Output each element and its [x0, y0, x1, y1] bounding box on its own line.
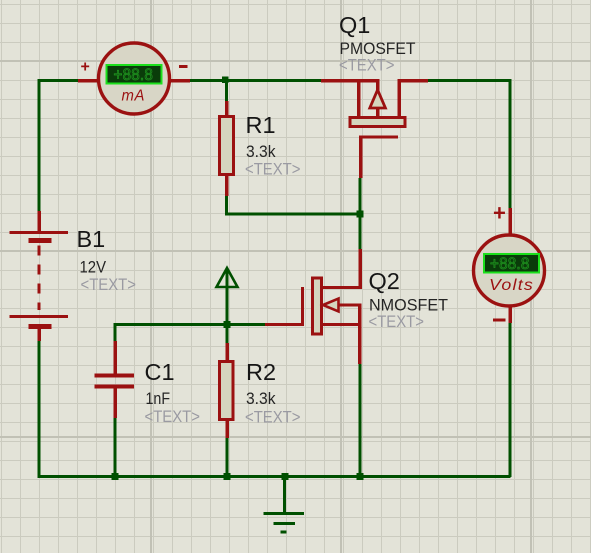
svg-text:R2: R2 — [246, 359, 276, 385]
Q1 pmos red lead right — [398, 79, 429, 83]
wire C1 bottom to rail — [114, 418, 117, 477]
Q2 body arrow — [323, 299, 339, 312]
svg-text:Q2: Q2 — [369, 268, 400, 294]
svg-text:<TEXT>: <TEXT> — [369, 312, 425, 331]
Q2 source vertical red — [358, 305, 362, 364]
svg-text:B1: B1 — [77, 226, 106, 252]
wire Q2 source to rail — [359, 364, 362, 477]
wire C1 top vertical — [114, 323, 117, 341]
wire top left from corner to ammeter — [38, 79, 79, 82]
svg-text:3.3k: 3.3k — [246, 389, 276, 408]
Q1 body stub lower — [376, 108, 380, 117]
Q2 gate lead — [265, 323, 304, 326]
Q1 body arrow — [370, 90, 386, 108]
voltmeter body — [474, 235, 545, 306]
junction node at R1 top — [222, 77, 229, 84]
capacitor C1 top plate — [95, 373, 135, 377]
battery B1 cell1 long plate — [10, 231, 69, 234]
Q1 gate bar — [359, 135, 398, 138]
Q2 body arrow lead — [339, 303, 362, 306]
voltmeter bottom pin — [508, 305, 512, 323]
resistor R2 bottom pin — [225, 419, 229, 438]
capacitor C1 bottom plate — [95, 384, 135, 388]
svg-text:<TEXT>: <TEXT> — [245, 160, 301, 179]
capacitor C1 top pin — [113, 341, 117, 374]
Q1 body stub upper — [376, 81, 380, 92]
Q1 gate lead down — [359, 137, 363, 178]
Q1 drain stub — [397, 81, 401, 118]
junction node C1 bottom — [112, 473, 119, 480]
wire left vertical to battery — [38, 79, 41, 211]
resistor R2 top pin — [225, 343, 229, 362]
battery dashed link — [37, 246, 40, 311]
svg-text:<TEXT>: <TEXT> — [245, 408, 301, 427]
Q2 source stub horizontal — [322, 323, 362, 326]
battery B1 cell2 short plate — [29, 324, 52, 329]
wire bottom rail — [38, 475, 511, 478]
voltmeter minus — [493, 318, 506, 321]
svg-text:1nF: 1nF — [146, 389, 171, 408]
Q1 pmos red lead left — [321, 79, 380, 83]
svg-text:<TEXT>: <TEXT> — [339, 56, 395, 75]
power arrow head — [217, 268, 238, 287]
svg-text:+: + — [81, 59, 90, 76]
svg-text:Volts: Volts — [489, 277, 534, 294]
Q1 source stub — [357, 81, 361, 118]
wire R2 bottom to rail — [226, 438, 229, 477]
svg-text:mA: mA — [122, 88, 146, 105]
svg-text:+: + — [493, 201, 506, 226]
svg-text:+88.8: +88.8 — [114, 66, 154, 84]
wire Q1 gate to Q2 drain vertical green part — [359, 178, 362, 249]
svg-text:R1: R1 — [246, 112, 276, 138]
ammeter body — [99, 43, 170, 114]
svg-text:Q1: Q1 — [339, 12, 370, 38]
junction node R2 bottom — [224, 473, 231, 480]
wire R1 bottom to node row — [227, 196, 361, 214]
ammeter minus — [179, 65, 187, 68]
ammeter right pin — [170, 79, 190, 83]
Q2 drain stub horizontal — [322, 286, 362, 289]
junction node Q2 source bottom — [357, 473, 364, 480]
svg-text:<TEXT>: <TEXT> — [145, 407, 201, 426]
voltmeter top pin — [508, 208, 512, 236]
svg-text:12V: 12V — [80, 258, 107, 277]
ground bars — [264, 514, 305, 533]
svg-text:C1: C1 — [145, 359, 175, 385]
resistor R2 body — [220, 362, 234, 420]
wire voltmeter bottom to bottom rail — [509, 323, 512, 477]
voltmeter LCD — [484, 254, 539, 273]
Q2 gate bar — [301, 287, 304, 326]
ammeter LCD — [107, 65, 162, 84]
battery B1 top pin — [37, 211, 41, 231]
battery B1 cell1 short plate — [29, 238, 52, 243]
svg-text:<TEXT>: <TEXT> — [81, 275, 137, 294]
resistor R1 bottom pin — [225, 175, 229, 196]
battery B1 bottom pin — [37, 329, 41, 341]
power arrow stem — [226, 270, 229, 326]
capacitor C1 bottom pin — [113, 388, 117, 418]
Q2 channel plate — [313, 278, 322, 334]
wire battery bottom lead — [38, 340, 41, 478]
Q1 channel plate — [350, 118, 405, 127]
junction node at gate/R1 row — [357, 211, 364, 218]
wire R1 top pin stub — [225, 79, 228, 101]
svg-text:3.3k: 3.3k — [246, 142, 276, 161]
junction node ground — [282, 473, 289, 480]
svg-text:+88.8: +88.8 — [490, 255, 530, 273]
resistor R1 body — [220, 117, 234, 175]
junction node at R2/arrow row — [224, 321, 231, 328]
Q2 drain red lead vertical — [358, 249, 362, 289]
resistor R1 top pin — [225, 101, 229, 117]
wire gate row C1 to Q2 — [115, 323, 265, 326]
wire ammeter to R1 node to Q1 — [190, 79, 321, 82]
wire Q1 drain to top right corner down to voltmeter — [428, 79, 510, 208]
ammeter left pin — [78, 79, 98, 83]
ground stem — [283, 476, 286, 513]
battery B1 cell2 long plate — [10, 315, 69, 318]
wire R2 top stub — [226, 325, 229, 344]
